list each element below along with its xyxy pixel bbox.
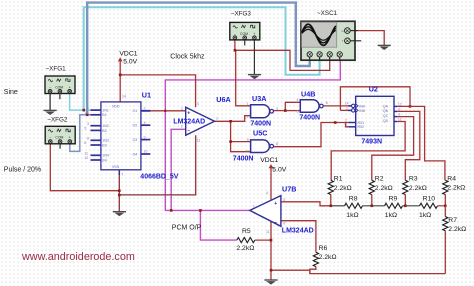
svg-text:4: 4 bbox=[197, 102, 199, 106]
junction QA cascade bbox=[409, 105, 412, 108]
svg-text:1N4: 1N4 bbox=[102, 154, 109, 158]
label VDC1 first bbox=[119, 51, 137, 58]
svg-text:5: 5 bbox=[297, 110, 299, 114]
svg-text:U7B: U7B bbox=[282, 184, 296, 193]
svg-text:R8: R8 bbox=[349, 196, 358, 203]
svg-text:R2: R2 bbox=[375, 175, 384, 182]
svg-text:VDC1: VDC1 bbox=[119, 51, 137, 58]
label U2 bbox=[369, 84, 378, 93]
svg-text:7: 7 bbox=[253, 205, 255, 209]
svg-text:R3: R3 bbox=[409, 175, 418, 182]
svg-text:B1: B1 bbox=[102, 113, 106, 117]
resistor R1 2.2k bbox=[328, 175, 352, 205]
resistor R6 2.2k bbox=[310, 245, 337, 274]
label PCM O/P bbox=[172, 224, 202, 231]
svg-text:+: + bbox=[187, 111, 190, 117]
svg-text:U1: U1 bbox=[142, 91, 151, 100]
svg-text:14: 14 bbox=[122, 95, 126, 99]
resistor R8 1k bbox=[331, 196, 363, 219]
svg-text:U6A: U6A bbox=[216, 95, 230, 104]
svg-text:9: 9 bbox=[247, 138, 249, 142]
svg-text:3: 3 bbox=[87, 122, 89, 126]
svg-text:R1: R1 bbox=[334, 175, 343, 182]
svg-text:QB: QB bbox=[383, 109, 389, 113]
svg-text:7493N: 7493N bbox=[361, 139, 382, 146]
label 7493N bbox=[361, 139, 382, 146]
svg-text:5: 5 bbox=[84, 127, 86, 131]
label LM324AD U7B bbox=[282, 227, 314, 234]
label 7400N U4B bbox=[299, 115, 320, 122]
svg-text:QA: QA bbox=[383, 105, 389, 109]
label Sine bbox=[4, 89, 18, 96]
svg-text:R7: R7 bbox=[448, 217, 457, 224]
svg-text:T: T bbox=[342, 39, 344, 43]
svg-text:7400N: 7400N bbox=[299, 115, 320, 122]
pin XFG1 COM stub bbox=[59, 94, 61, 100]
svg-text:2.2kΩ: 2.2kΩ bbox=[236, 245, 254, 252]
svg-text:12: 12 bbox=[84, 156, 88, 160]
svg-text:1: 1 bbox=[247, 102, 249, 106]
label www.androiderode.com bbox=[21, 251, 135, 263]
junction sine net bbox=[82, 109, 85, 112]
svg-text:2.2kΩ: 2.2kΩ bbox=[448, 226, 466, 233]
svg-text:5.0V: 5.0V bbox=[123, 58, 137, 65]
wire QC to R2 bbox=[372, 117, 414, 181]
svg-text:2.2kΩ: 2.2kΩ bbox=[447, 184, 465, 191]
svg-text:B2: B2 bbox=[102, 129, 106, 133]
ground G2 under XFG3 bbox=[248, 75, 261, 80]
label 4066BD_5V bbox=[140, 173, 178, 180]
svg-text:U4B: U4B bbox=[301, 89, 315, 98]
svg-text:COM: COM bbox=[240, 32, 248, 36]
svg-text:6: 6 bbox=[283, 221, 285, 225]
svg-text:1: 1 bbox=[216, 117, 218, 121]
svg-text:–: – bbox=[274, 220, 277, 226]
svg-text:Clock 5khz: Clock 5khz bbox=[170, 54, 205, 61]
svg-text:4: 4 bbox=[297, 98, 299, 102]
svg-text:3: 3 bbox=[276, 107, 278, 111]
svg-text:4: 4 bbox=[266, 191, 268, 195]
svg-text:10: 10 bbox=[245, 149, 249, 153]
label U3A bbox=[252, 94, 266, 103]
ground G5 under U7B bbox=[264, 280, 277, 285]
wire U4B output to U2 INA bbox=[324, 105, 352, 107]
svg-text:O4: O4 bbox=[133, 152, 138, 156]
svg-text:3: 3 bbox=[345, 123, 347, 127]
svg-text:INB: INB bbox=[359, 109, 366, 113]
svg-text:9: 9 bbox=[398, 107, 400, 111]
svg-text:R5: R5 bbox=[242, 228, 251, 235]
op-amp U7B bbox=[250, 191, 285, 234]
svg-text:VDD: VDD bbox=[112, 104, 120, 108]
wire U6A output to U3A and U5C inputs bbox=[215, 116, 251, 152]
wire QB to R3 bbox=[397, 111, 420, 180]
wire U1 VSS to ground G4 bbox=[118, 170, 120, 212]
junction bus R4 bbox=[444, 205, 447, 208]
svg-text:U3A: U3A bbox=[252, 94, 266, 103]
svg-text:1kΩ: 1kΩ bbox=[419, 212, 431, 219]
label U4B bbox=[301, 89, 315, 98]
svg-text:~XSC1: ~XSC1 bbox=[317, 10, 338, 17]
ground G3 scope bbox=[378, 45, 391, 50]
wire U1 O1 to U6A+ input bbox=[141, 110, 186, 112]
svg-text:2.2kΩ: 2.2kΩ bbox=[375, 185, 393, 192]
junction bottom rail bbox=[270, 269, 273, 272]
resistor R9 1k bbox=[363, 196, 403, 219]
svg-text:+: + bbox=[69, 85, 71, 89]
wire U3A output to U4B inputs bbox=[274, 102, 301, 110]
NAND gate U5C 7400N bbox=[245, 138, 278, 154]
svg-text:–: – bbox=[49, 136, 51, 140]
svg-text:INA: INA bbox=[359, 104, 366, 108]
svg-text:–: – bbox=[234, 32, 236, 36]
power VDC1 rail: 5V to U1 pin14 and U6A V+ bbox=[118, 57, 196, 107]
svg-text:~XFG1: ~XFG1 bbox=[46, 65, 67, 72]
svg-text:Pulse / 20%: Pulse / 20% bbox=[4, 166, 41, 173]
wire QD to R1 bbox=[331, 122, 405, 181]
svg-text:9: 9 bbox=[144, 135, 146, 139]
svg-text:2.2kΩ: 2.2kΩ bbox=[319, 254, 337, 261]
wire XFG3- to ground G2 bbox=[253, 40, 255, 75]
svg-text:4: 4 bbox=[144, 121, 146, 125]
junction bus R3 bbox=[404, 205, 407, 208]
junction pulse net bbox=[86, 114, 89, 117]
svg-text:~XFG3: ~XFG3 bbox=[231, 10, 252, 17]
oscilloscope XSC1 bbox=[301, 21, 361, 60]
label U1 bbox=[142, 91, 151, 100]
NAND gate U3A 7400N bbox=[247, 102, 278, 118]
svg-text:1N3: 1N3 bbox=[102, 139, 109, 143]
svg-text:R02: R02 bbox=[358, 125, 365, 129]
svg-text:+: + bbox=[69, 136, 71, 140]
svg-text:VDC1: VDC1 bbox=[260, 157, 278, 164]
svg-text:O1: O1 bbox=[133, 109, 138, 113]
junction U7B out to R5 bbox=[199, 209, 202, 212]
resistor R4 2.2k bbox=[443, 175, 466, 205]
svg-text:11: 11 bbox=[197, 139, 201, 143]
wire red clock net: XFG3+ to scope T3 and U3A input bbox=[235, 39, 330, 106]
junction reset wire bbox=[334, 121, 337, 124]
label U5C bbox=[253, 129, 267, 138]
svg-text:+: + bbox=[274, 201, 277, 207]
wire scope ground: T_A to ground bbox=[356, 31, 385, 46]
svg-text:8: 8 bbox=[276, 142, 278, 146]
function generator XFG3 bbox=[230, 10, 260, 40]
wire QA to U2 INB cascade bbox=[340, 87, 410, 111]
svg-text:1N2: 1N2 bbox=[102, 124, 109, 128]
wire QA to R4 bbox=[397, 106, 445, 180]
svg-text:Sine: Sine bbox=[4, 89, 18, 96]
svg-text:12: 12 bbox=[398, 102, 402, 106]
wire ladder bus left end to U7B+ bbox=[281, 202, 331, 206]
svg-text:2: 2 bbox=[144, 107, 146, 111]
svg-text:O3: O3 bbox=[133, 138, 138, 142]
label U6A bbox=[216, 95, 230, 104]
svg-text:R10: R10 bbox=[423, 196, 436, 203]
label 7400N U3A bbox=[250, 120, 271, 127]
wire cyan sine net: XFG1+ to U1 1N1 and scope T2 border bbox=[70, 7, 320, 110]
resistor R5 2.2k bbox=[236, 228, 271, 252]
svg-text:U2: U2 bbox=[369, 84, 378, 93]
junction ground node a bbox=[118, 189, 121, 192]
binary counter U2 7493N bbox=[345, 96, 402, 135]
label U7B bbox=[282, 184, 296, 193]
resistor R7 2.2k bbox=[443, 206, 467, 274]
label VDC1 second bbox=[260, 157, 278, 164]
wire XFG2- to ground junction bbox=[50, 143, 119, 191]
junction U6A out column mid bbox=[229, 140, 232, 143]
svg-text:5.0V: 5.0V bbox=[272, 166, 286, 173]
ground G4 under U1 bbox=[113, 212, 126, 217]
junction U4B input fork bbox=[284, 109, 287, 112]
resistor R3 2.2k bbox=[403, 175, 427, 205]
svg-text:6: 6 bbox=[326, 101, 328, 105]
svg-text:6: 6 bbox=[84, 141, 86, 145]
NAND gate U4B 7400N bbox=[297, 98, 328, 114]
svg-text:QD: QD bbox=[383, 119, 389, 123]
svg-text:2: 2 bbox=[247, 115, 249, 119]
wire steel-blue pulse net: XFG2+ to U1 B1 and scope T1 border bbox=[70, 3, 310, 152]
junction clock tap bbox=[234, 49, 237, 52]
wire U6A V- to ground line bbox=[119, 135, 195, 195]
svg-text:1kΩ: 1kΩ bbox=[385, 212, 397, 219]
svg-text:LM324AD: LM324AD bbox=[282, 227, 314, 234]
ground G1 under XFG1 bbox=[44, 94, 57, 116]
power VDC1 second: 5V to U7B V+ bbox=[269, 164, 274, 200]
svg-text:U5C: U5C bbox=[253, 129, 267, 138]
svg-text:–: – bbox=[187, 128, 190, 134]
function generator XFG2 bbox=[45, 116, 75, 144]
svg-text:4066BD_5V: 4066BD_5V bbox=[140, 173, 178, 180]
svg-text:5: 5 bbox=[283, 198, 285, 202]
svg-text:+: + bbox=[253, 32, 255, 36]
svg-text:R9: R9 bbox=[389, 196, 398, 203]
wire U7B- to R6 bbox=[281, 221, 316, 253]
svg-text:11: 11 bbox=[266, 230, 270, 234]
junction ground node b bbox=[118, 194, 121, 197]
wire bus right end bbox=[438, 205, 446, 207]
svg-text:1: 1 bbox=[87, 106, 89, 110]
wire U5C output to U2 R01 R02 reset bbox=[274, 123, 349, 147]
svg-text:B4: B4 bbox=[102, 158, 106, 162]
svg-text:7400N: 7400N bbox=[250, 120, 271, 127]
svg-text:O2: O2 bbox=[133, 124, 138, 128]
wire magenta PCM output: U7B out to scope T4, R5 and U6A- feedback bbox=[165, 57, 340, 240]
svg-text:LM324AD: LM324AD bbox=[173, 119, 205, 126]
svg-text:R6: R6 bbox=[319, 245, 328, 252]
junction U7B out to feedback bbox=[170, 209, 173, 212]
svg-text:1kΩ: 1kΩ bbox=[346, 212, 358, 219]
label 5.0V second bbox=[272, 166, 286, 173]
pin XFG3 COM stub bbox=[244, 40, 246, 46]
label 5.0V first bbox=[123, 58, 137, 65]
svg-text:11: 11 bbox=[398, 118, 402, 122]
svg-text:2.2kΩ: 2.2kΩ bbox=[334, 185, 352, 192]
junction bus R1 bbox=[330, 205, 333, 208]
resistor R10 1k bbox=[403, 196, 438, 219]
label 7400N U5C bbox=[233, 156, 254, 163]
svg-text:COM: COM bbox=[55, 85, 63, 89]
svg-text:www.androiderode.com: www.androiderode.com bbox=[21, 251, 135, 263]
svg-text:8: 8 bbox=[87, 136, 89, 140]
svg-text:B3: B3 bbox=[102, 143, 106, 147]
analog switch U1 4066BD_5V bbox=[84, 95, 150, 177]
label Pulse 20% bbox=[4, 166, 41, 173]
wire U7B V- to ground G5 bbox=[270, 221, 272, 280]
junction bus R2 bbox=[371, 205, 374, 208]
svg-text:COM: COM bbox=[55, 136, 63, 140]
junction VDC1 rail bbox=[119, 74, 122, 77]
svg-text:PCM O/P: PCM O/P bbox=[172, 224, 202, 231]
svg-text:–: – bbox=[49, 85, 51, 89]
function generator XFG1 bbox=[45, 65, 75, 93]
svg-text:7: 7 bbox=[121, 173, 123, 177]
svg-text:~XFG2: ~XFG2 bbox=[47, 116, 68, 123]
svg-text:7400N: 7400N bbox=[233, 156, 254, 163]
svg-text:1N1: 1N1 bbox=[102, 109, 109, 113]
svg-text:13: 13 bbox=[84, 111, 88, 115]
junction U6A out column top bbox=[229, 120, 232, 123]
svg-text:VSS: VSS bbox=[112, 165, 120, 169]
junction PAM crossing bbox=[164, 110, 166, 112]
svg-text:8: 8 bbox=[398, 113, 400, 117]
svg-text:14: 14 bbox=[345, 102, 349, 106]
wire bottom rail bbox=[271, 270, 445, 273]
pin XFG2 COM stub bbox=[59, 144, 61, 149]
svg-text:1: 1 bbox=[346, 106, 348, 110]
op-amp U6A bbox=[181, 102, 218, 143]
label Clock 5khz bbox=[170, 54, 205, 61]
junction R5 to V- rail bbox=[270, 239, 273, 242]
svg-text:10: 10 bbox=[144, 150, 148, 154]
svg-text:2.2kΩ: 2.2kΩ bbox=[409, 185, 427, 192]
svg-text:QC: QC bbox=[383, 114, 389, 118]
resistor R2 2.2k bbox=[369, 175, 393, 205]
label LM324AD U6A bbox=[173, 119, 205, 126]
svg-text:R4: R4 bbox=[447, 175, 456, 182]
svg-text:11: 11 bbox=[84, 151, 88, 155]
svg-text:3: 3 bbox=[181, 107, 183, 111]
label XSC1 bbox=[317, 10, 338, 17]
